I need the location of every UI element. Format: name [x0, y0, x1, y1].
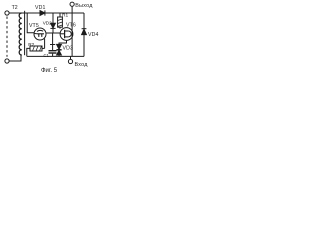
resistor R1 [58, 13, 63, 29]
transistor VT5 [34, 28, 46, 48]
wire to VT5 base [27, 13, 34, 33]
wire top rail [9, 12, 72, 14]
terminal bottom [68, 56, 72, 63]
capacitor C1 [49, 44, 57, 56]
dashed boundary line [6, 17, 8, 57]
terminal top-left [5, 11, 9, 15]
svg-text:R2: R2 [28, 42, 34, 48]
resistor R2 [27, 46, 45, 56]
wire VT5 to VT6 node [46, 33, 60, 44]
zener diode VD3 [56, 44, 61, 56]
svg-text:VD1: VD1 [35, 5, 46, 11]
transistor VT6 [59, 28, 73, 45]
terminal bottom-left [5, 59, 9, 63]
diode VD1 [40, 10, 45, 15]
wire top rail right [72, 12, 84, 14]
svg-text:VD4: VD4 [88, 32, 99, 38]
svg-text:VD3: VD3 [63, 45, 74, 51]
svg-text:Т2: Т2 [12, 5, 18, 11]
transformer core [24, 11, 26, 55]
terminal output [70, 2, 74, 6]
diode VD4 [82, 13, 87, 56]
wire bottom-left [9, 55, 21, 61]
bottom rail [27, 55, 84, 57]
svg-text:R1: R1 [62, 13, 68, 19]
svg-text:Вход: Вход [75, 62, 89, 68]
svg-text:Фиг. 5: Фиг. 5 [41, 68, 58, 74]
emitter/output vertical wire [71, 6, 73, 56]
transformer T2 winding [19, 13, 22, 55]
wire node to C1 [52, 33, 54, 44]
diode VD2 [50, 13, 55, 33]
svg-text:Выход: Выход [75, 3, 93, 9]
